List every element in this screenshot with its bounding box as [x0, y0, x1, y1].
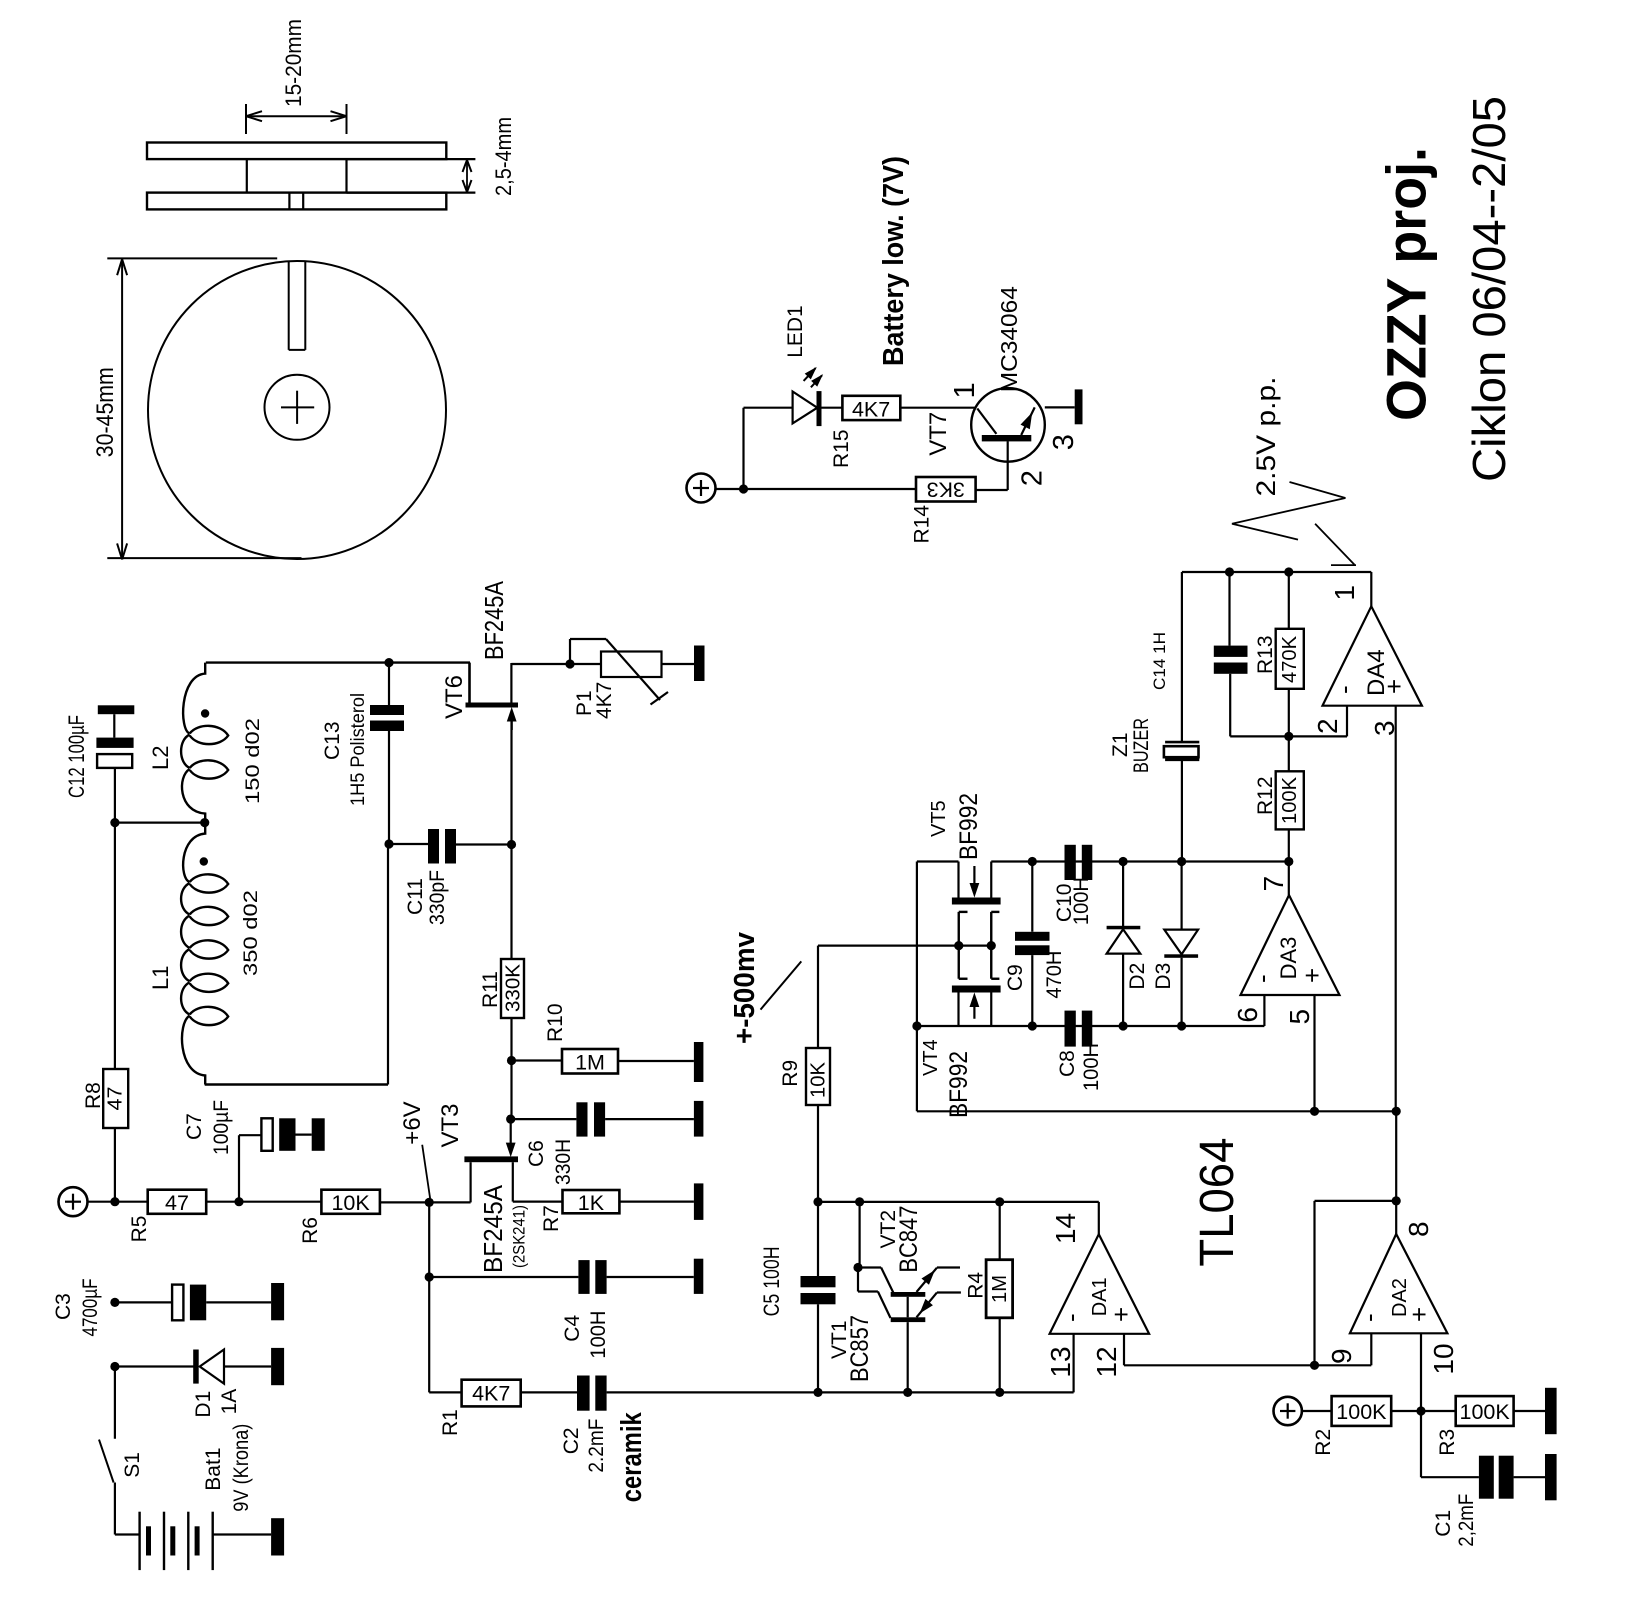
- junction dot R12/R13/pin2: [1284, 732, 1293, 741]
- wire DA3 pin6: [1263, 995, 1265, 1026]
- wire DA3 output pin7: [1288, 862, 1290, 896]
- junction dot VT2 branch: [855, 1197, 864, 1206]
- svg-text:C8: C8: [1056, 1050, 1079, 1077]
- capacitor C8 100H: [1065, 1011, 1093, 1047]
- junction dot D3 top: [1177, 857, 1186, 866]
- wire to R10: [512, 1059, 563, 1061]
- ground bar (D1): [271, 1348, 284, 1385]
- svg-text:ceramik: ceramik: [616, 1411, 648, 1502]
- transistor VT6 BF245A: [466, 663, 519, 730]
- op-amp DA4: [1323, 606, 1422, 705]
- svg-text:2: 2: [1017, 470, 1049, 486]
- ground bar (C4): [694, 1259, 704, 1294]
- wire gates signal: [818, 944, 991, 946]
- junction dot C9 bottom: [1028, 1021, 1037, 1030]
- dimension arrow 2,5-4mm: [463, 117, 517, 196]
- disc slit: [289, 261, 306, 350]
- svg-text:330H: 330H: [552, 1139, 575, 1185]
- wire R9 to C5 junction: [817, 1105, 819, 1276]
- svg-text:330K: 330K: [503, 963, 525, 1012]
- junction dot VT6 gate / R11: [507, 840, 516, 849]
- wire C5 to bottom net: [817, 1304, 819, 1392]
- svg-text:R4: R4: [965, 1272, 988, 1299]
- capacitor C2 2.2mF: [577, 1376, 607, 1411]
- wire C13/C11 vertical: [388, 663, 389, 1085]
- svg-text:47: 47: [165, 1191, 189, 1215]
- svg-text:1: 1: [949, 382, 981, 398]
- junction dot +6V: [425, 1198, 434, 1207]
- svg-text:4700µF: 4700µF: [79, 1279, 102, 1337]
- wire C2 to VT1 net: [607, 1391, 1074, 1393]
- disc center hole: [265, 375, 330, 440]
- wire R1 to C2: [521, 1391, 577, 1393]
- wire C6: [511, 1118, 577, 1120]
- junction dot pin3 rail: [1392, 1107, 1401, 1116]
- wire C13 junction to C11: [389, 843, 428, 845]
- wire VT6 source rail to P1: [511, 663, 601, 665]
- label +-500mv with pointer: [729, 932, 801, 1044]
- capacitor C11 330pF: [428, 829, 456, 864]
- svg-text:2.5V p.p.: 2.5V p.p.: [1251, 377, 1281, 497]
- svg-text:3K3: 3K3: [927, 478, 965, 502]
- svg-text:100H: 100H: [1080, 1043, 1103, 1091]
- svg-text:-: -: [1329, 685, 1359, 694]
- L1 winding dot: [200, 857, 208, 865]
- svg-text:R6: R6: [299, 1217, 322, 1244]
- svg-text:R7: R7: [540, 1205, 563, 1232]
- inductor L2: [181, 663, 228, 823]
- junction dot C3: [110, 1298, 119, 1307]
- svg-text:R14: R14: [911, 505, 934, 544]
- resistor R14 3K3: [916, 477, 976, 502]
- junction dot gate1: [954, 941, 963, 950]
- wire to LED1: [744, 407, 793, 409]
- resistor R9 10K: [806, 946, 830, 1105]
- ground bar (VT7 pin3): [1075, 389, 1083, 424]
- sawtooth waveform 2.5V p.p.: [1232, 482, 1356, 565]
- svg-text:15-20mm: 15-20mm: [281, 19, 306, 107]
- svg-text:R11: R11: [479, 971, 502, 1008]
- diode D1 1A: [193, 1350, 271, 1384]
- junction dot C14 top: [1225, 567, 1234, 576]
- wire VT7 pin2: [976, 441, 1008, 490]
- wire R10 to ground: [618, 1060, 694, 1062]
- svg-text:+: +: [1404, 1307, 1434, 1322]
- wire R5 to R6: [206, 1201, 321, 1203]
- junction dot C13 top: [384, 658, 393, 667]
- wire DA3 pin5: [1313, 995, 1315, 1111]
- capacitor C1 2,2mF: [1479, 1456, 1545, 1499]
- wire Z1 to rail: [1181, 761, 1183, 862]
- wire switch to battery: [115, 1483, 140, 1535]
- svg-text:12: 12: [1091, 1346, 1122, 1377]
- ground bar (R7): [694, 1183, 704, 1220]
- plus terminal (battery low): [687, 474, 716, 503]
- wire DA4 pin3: [1395, 706, 1397, 1112]
- svg-text:330pF: 330pF: [426, 870, 449, 925]
- svg-text:100K: 100K: [1336, 1400, 1387, 1424]
- wire bottom rail (mixer to DA2): [917, 1110, 1396, 1112]
- svg-text:C3: C3: [52, 1293, 75, 1320]
- svg-text:R5: R5: [128, 1216, 151, 1243]
- junction dot gate2: [987, 941, 996, 950]
- junction dot C7: [234, 1197, 243, 1206]
- svg-text:1A: 1A: [218, 1389, 241, 1415]
- sensor sandwich top plate: [147, 143, 446, 160]
- wire VT6 gate down: [510, 721, 512, 845]
- junction dot pin8 feedback: [1392, 1196, 1401, 1205]
- svg-text:R3: R3: [1436, 1429, 1459, 1456]
- svg-text:BF245A: BF245A: [478, 1184, 508, 1273]
- dimension arrow 30-45mm: [92, 258, 302, 559]
- L2 winding dot: [201, 709, 209, 717]
- svg-text:R13: R13: [1254, 635, 1277, 674]
- junction dot C6: [506, 1115, 515, 1124]
- wire DA2 pin8 output: [1395, 1111, 1397, 1234]
- VT4/VT5 gate electrodes: [959, 912, 1000, 979]
- transistor VT7 MC34064: [971, 388, 1045, 462]
- svg-text:VT7: VT7: [925, 412, 952, 456]
- svg-text:L1: L1: [148, 966, 173, 990]
- svg-text:150 d02: 150 d02: [243, 718, 264, 804]
- junction dot R4 bottom: [995, 1388, 1004, 1397]
- svg-text:C12 100µF: C12 100µF: [64, 715, 89, 798]
- wire mixer bottom: [917, 1025, 1265, 1027]
- wire to C3: [115, 1301, 172, 1303]
- sensor sandwich bottom plate: [147, 193, 446, 210]
- svg-text:TL064: TL064: [1191, 1138, 1244, 1267]
- ground bar (R3): [1545, 1388, 1557, 1434]
- capacitor C7 100uF: [261, 1118, 311, 1151]
- svg-text:1: 1: [1329, 585, 1360, 601]
- svg-text:8: 8: [1403, 1221, 1434, 1237]
- capacitor C9 470H: [1015, 862, 1050, 1027]
- svg-text:+: +: [1106, 1307, 1136, 1322]
- svg-text:470K: 470K: [1279, 635, 1301, 683]
- junction dot VT pair emitter-bottom: [903, 1388, 912, 1397]
- plus terminal (R2): [1274, 1397, 1302, 1425]
- op-amp DA3: [1241, 895, 1340, 995]
- junction dot C5 bottom: [813, 1388, 822, 1397]
- wire R2 to junction: [1391, 1410, 1456, 1412]
- svg-text:100K: 100K: [1279, 776, 1301, 824]
- ground bar (C1): [1545, 1454, 1557, 1500]
- svg-text:C2: C2: [560, 1427, 583, 1454]
- wire to R1: [429, 1391, 461, 1393]
- wire R6 junction down to R1: [428, 1202, 430, 1392]
- wire C12 junction to L junction: [115, 821, 205, 823]
- wire DA4 pin1: [1370, 572, 1372, 606]
- resistor R7 1K: [563, 1190, 620, 1215]
- svg-text:+-500mv: +-500mv: [729, 932, 761, 1044]
- wire DA4 pin2: [1289, 706, 1347, 737]
- label +6V with pointer: [399, 1101, 430, 1198]
- junction dot D2 top: [1119, 857, 1128, 866]
- ground bar (C6): [694, 1101, 704, 1137]
- junction dot L1/L2/C12: [200, 818, 209, 827]
- svg-text:13: 13: [1045, 1346, 1076, 1377]
- svg-text:VT6: VT6: [441, 675, 468, 719]
- svg-text:MC34064: MC34064: [996, 286, 1022, 392]
- wire C12 to junction: [114, 768, 116, 823]
- svg-text:10: 10: [1428, 1343, 1459, 1374]
- wire D1 junction to switch: [114, 1367, 116, 1439]
- capacitor C5 100H: [801, 1276, 836, 1304]
- svg-text:BUZER: BUZER: [1130, 718, 1153, 773]
- svg-text:BC857: BC857: [846, 1315, 874, 1382]
- svg-text:Battery low. (7V): Battery low. (7V): [878, 156, 910, 366]
- svg-text:L2: L2: [148, 746, 173, 770]
- wire plus to R14: [716, 488, 917, 490]
- svg-text:2: 2: [1312, 718, 1343, 734]
- wire plus to R5: [88, 1201, 148, 1203]
- junction dot D2 bottom: [1119, 1021, 1128, 1030]
- capacitor C12 100uF ground bar: [98, 705, 135, 737]
- svg-text:C6: C6: [525, 1140, 548, 1167]
- svg-text:+6V: +6V: [399, 1101, 426, 1144]
- svg-text:2.2mF: 2.2mF: [585, 1419, 608, 1473]
- plus terminal (main): [59, 1187, 88, 1216]
- svg-text:R9: R9: [779, 1060, 802, 1087]
- svg-text:100H: 100H: [1070, 877, 1093, 925]
- svg-text:14: 14: [1050, 1213, 1081, 1244]
- capacitor C10 100H: [1065, 845, 1093, 880]
- wire VT3 drain to R7: [513, 1200, 563, 1202]
- wire DA1 pin12: [1124, 1334, 1371, 1366]
- svg-text:R15: R15: [830, 429, 853, 468]
- op-amp DA1: [1050, 1234, 1150, 1334]
- resistor R6 10K: [321, 1190, 380, 1215]
- transistors VT1 BC857 / VT2 BC847 pair: [858, 1268, 961, 1393]
- svg-text:VT3: VT3: [437, 1103, 464, 1147]
- svg-text:LED1: LED1: [784, 305, 807, 358]
- svg-text:C7: C7: [183, 1113, 206, 1140]
- svg-text:4K7: 4K7: [593, 682, 616, 719]
- wire VT4/VT5 left vertical: [917, 862, 959, 1112]
- svg-text:(2SK241): (2SK241): [510, 1205, 529, 1268]
- svg-text:C5 100H: C5 100H: [759, 1246, 784, 1316]
- svg-text:3: 3: [1048, 434, 1080, 450]
- svg-text:100H: 100H: [587, 1311, 610, 1359]
- transistor VT3 BF245A(2SK241): [464, 1119, 518, 1202]
- svg-text:R1: R1: [439, 1409, 462, 1436]
- wire DA2 pin9: [1370, 1333, 1372, 1365]
- svg-text:-: -: [1354, 1313, 1384, 1322]
- wire top tank rail: [206, 661, 470, 663]
- inductor L1: [181, 823, 228, 1085]
- svg-text:D3: D3: [1152, 963, 1175, 990]
- junction dot D1: [110, 1362, 119, 1371]
- switch S1: [99, 1440, 114, 1483]
- svg-text:100K: 100K: [1459, 1400, 1510, 1424]
- ground bar (R10): [694, 1042, 704, 1082]
- svg-text:+: +: [1297, 968, 1327, 983]
- svg-text:9: 9: [1326, 1348, 1357, 1364]
- svg-text:R12: R12: [1254, 776, 1277, 815]
- junction dot VT1/VT2 base: [853, 1263, 862, 1272]
- svg-text:2,5-4mm: 2,5-4mm: [491, 117, 516, 196]
- wire R3 to ground: [1514, 1410, 1545, 1412]
- svg-text:-: -: [1056, 1313, 1086, 1322]
- resistor R8 47: [103, 1069, 128, 1128]
- svg-text:100µF: 100µF: [210, 1100, 233, 1155]
- svg-text:1M: 1M: [989, 1275, 1011, 1303]
- svg-text:7: 7: [1258, 876, 1289, 892]
- svg-text:+: +: [1379, 679, 1409, 694]
- junction dot C9 top: [1028, 857, 1037, 866]
- wire VT7 pin3 to ground: [1045, 406, 1075, 408]
- wire P1 to ground: [662, 663, 695, 665]
- svg-text:1H5 Polisterol: 1H5 Polisterol: [348, 693, 369, 806]
- capacitor C13 1H5: [370, 705, 404, 731]
- svg-text:D2: D2: [1126, 963, 1149, 990]
- wire tank bottom rail: [205, 1083, 388, 1085]
- svg-text:5: 5: [1284, 1009, 1315, 1025]
- resistor R1 4K7: [462, 1380, 521, 1407]
- wire mixer top rail: [991, 860, 1289, 862]
- wire LED branch vertical: [742, 408, 744, 489]
- wire VT2 branch down: [858, 1202, 860, 1268]
- wire DA2 pin10: [1420, 1333, 1422, 1411]
- capacitor C6 330H: [576, 1102, 694, 1136]
- wire R8 to power rail: [114, 1128, 116, 1202]
- svg-text:10K: 10K: [331, 1191, 370, 1215]
- ground bar (P1): [694, 646, 705, 682]
- wire R6 to VT3 source: [380, 1201, 471, 1203]
- transistor VT4 BF992: [952, 986, 1001, 1027]
- wire to D1: [115, 1365, 194, 1367]
- svg-text:4K7: 4K7: [472, 1382, 510, 1406]
- wire feedback to pin9: [1315, 1201, 1397, 1365]
- svg-text:VT5: VT5: [928, 800, 950, 837]
- svg-text:30-45mm: 30-45mm: [92, 367, 119, 457]
- wire DA1 pin14: [1098, 1202, 1100, 1234]
- ground bar (battery): [271, 1518, 284, 1555]
- svg-text:R8: R8: [82, 1082, 105, 1109]
- svg-text:C13: C13: [321, 721, 344, 760]
- svg-text:1K: 1K: [578, 1191, 605, 1215]
- capacitor C3 4700uF: [172, 1285, 271, 1321]
- resistor R3 100K: [1456, 1396, 1514, 1426]
- junction dot R8 bottom: [110, 1197, 119, 1206]
- wire plus to R2: [1302, 1410, 1332, 1412]
- diode D3: [1164, 862, 1198, 1027]
- svg-text:OZZY proj.: OZZY proj.: [1375, 147, 1438, 421]
- svg-text:9V (Krona): 9V (Krona): [230, 1424, 253, 1512]
- junction dot LED branch: [739, 484, 748, 493]
- svg-text:C4: C4: [561, 1315, 584, 1342]
- wire DA1 pin13: [1072, 1334, 1074, 1393]
- resistor R4 1M: [986, 1202, 1013, 1393]
- coil disc circle: [148, 261, 446, 559]
- svg-text:350 d02: 350 d02: [241, 890, 262, 976]
- svg-text:Bat1: Bat1: [202, 1447, 225, 1490]
- svg-text:10K: 10K: [808, 1061, 830, 1098]
- svg-text:6: 6: [1232, 1007, 1263, 1023]
- wire down to R8: [114, 823, 116, 1069]
- svg-text:C1: C1: [1432, 1510, 1455, 1537]
- wire DA1 pin14 net: [818, 1201, 1099, 1203]
- svg-text:C11: C11: [404, 878, 427, 915]
- resistor R15 4K7: [842, 396, 900, 422]
- svg-text:-: -: [1247, 974, 1277, 983]
- resistor R2 100K: [1332, 1396, 1392, 1426]
- svg-text:2,2mF: 2,2mF: [1455, 1494, 1478, 1547]
- svg-text:S1: S1: [121, 1452, 144, 1478]
- junction dot R13 top: [1284, 567, 1293, 576]
- wire C4: [429, 1276, 578, 1278]
- wire Z1 vertical top: [1181, 572, 1183, 742]
- junction dot feedback/pin12 net: [1310, 1361, 1319, 1370]
- svg-text:Ciklon 06/04--2/05: Ciklon 06/04--2/05: [1463, 96, 1515, 482]
- svg-text:BF245A: BF245A: [479, 580, 509, 660]
- svg-text:D1: D1: [192, 1391, 215, 1418]
- wire C11 to gate junction: [456, 843, 512, 845]
- junction dot pin5 rail: [1310, 1107, 1319, 1116]
- junction dot DA3 out: [1284, 857, 1293, 866]
- junction dot C12: [110, 818, 119, 827]
- LED1 diode: [793, 368, 822, 426]
- svg-text:BF992: BF992: [945, 1051, 973, 1118]
- resistor R11 330K: [501, 845, 525, 1019]
- trimmer P1 4K7: [570, 639, 668, 705]
- junction dot R9/DA1 wire: [813, 1197, 822, 1206]
- svg-text:BF992: BF992: [955, 793, 983, 860]
- svg-text:470H: 470H: [1043, 951, 1066, 999]
- junction dot R10: [507, 1056, 516, 1065]
- resistor R10 1M: [562, 1049, 618, 1075]
- wire top rail DA4: [1182, 571, 1371, 573]
- junction dot P1 wiper: [565, 659, 574, 668]
- svg-text:R10: R10: [544, 1003, 567, 1042]
- wire R7 to ground: [619, 1200, 694, 1202]
- junction dot pin10: [1416, 1406, 1425, 1415]
- dimension arrow 15-20mm: [246, 19, 347, 134]
- wire LED1 to R15: [822, 407, 843, 409]
- junction dot C4: [425, 1272, 434, 1281]
- battery Bat1 9V: [140, 1512, 272, 1570]
- svg-text:VT4: VT4: [920, 1039, 942, 1076]
- svg-text:1M: 1M: [575, 1051, 605, 1075]
- junction dot mixer bottom left: [912, 1021, 921, 1030]
- capacitor C14 1H: [1214, 572, 1289, 736]
- resistor R5 47: [148, 1190, 207, 1215]
- junction dot D3 bottom: [1177, 1021, 1186, 1030]
- svg-text:4K7: 4K7: [852, 398, 890, 422]
- junction dot C11 left: [384, 839, 393, 848]
- resistor R13 470K: [1276, 572, 1304, 736]
- buzzer Z1 piezo: [1164, 742, 1199, 760]
- wire C7 hook: [239, 1135, 261, 1202]
- wire to C1: [1421, 1411, 1479, 1477]
- junction dot R4 top: [995, 1197, 1004, 1206]
- capacitor C4 100H: [578, 1260, 693, 1294]
- svg-text:C14 1H: C14 1H: [1150, 632, 1169, 690]
- diode D2: [1107, 862, 1141, 1027]
- svg-text:C9: C9: [1004, 964, 1027, 991]
- sensor sandwich middle layer: [247, 159, 476, 193]
- resistor R12 100K: [1276, 736, 1304, 861]
- capacitor C12 100uF: [96, 738, 133, 768]
- svg-text:3: 3: [1369, 720, 1400, 736]
- wire R15 to VT7 pin1: [900, 407, 976, 409]
- op-amp DA2: [1350, 1234, 1448, 1333]
- svg-text:R2: R2: [1312, 1429, 1335, 1456]
- transistor VT5 BF992: [952, 862, 1001, 905]
- svg-text:BC847: BC847: [895, 1206, 923, 1273]
- ground bar (C7): [312, 1118, 325, 1151]
- wire R11 to R10 junction: [510, 1018, 512, 1119]
